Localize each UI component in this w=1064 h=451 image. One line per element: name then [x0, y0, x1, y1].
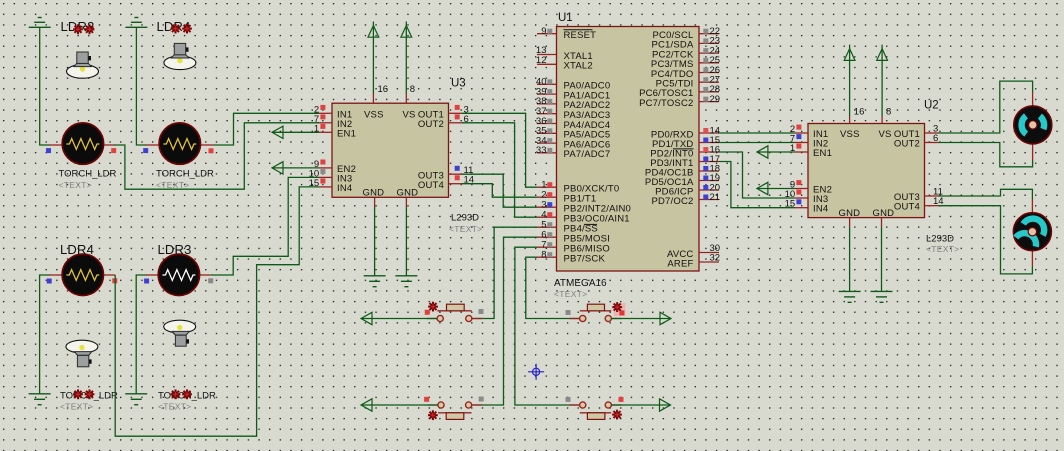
pin U1 PA1 (39) [536, 86, 557, 97]
wire U2 OUT1 to motor M1 top [939, 81, 1033, 133]
pin U1 PA4 (36) [536, 116, 557, 127]
svg-text:<TEXT>: <TEXT> [158, 401, 191, 411]
pin U1 PB2 (3) [537, 200, 557, 211]
svg-text:8: 8 [541, 250, 546, 261]
pin U1 PD3 (17) [699, 154, 720, 165]
pin U2 GND1 stem [849, 218, 851, 227]
marker star SW2 [612, 302, 622, 312]
svg-text:ATMEGA16: ATMEGA16 [554, 278, 607, 289]
svg-text:8: 8 [886, 107, 891, 118]
svg-text:OUT4: OUT4 [418, 180, 444, 191]
pin U3 GND1 stem [374, 197, 376, 207]
svg-text:16: 16 [854, 107, 865, 118]
chip U3 L293D body [332, 103, 449, 198]
svg-text:PA7/ADC7: PA7/ADC7 [564, 149, 611, 160]
svg-text:OUT2: OUT2 [418, 119, 444, 130]
pin U1 PB0 (1) [537, 180, 557, 191]
pin U3 OUT2 (6) [449, 114, 469, 125]
svg-text:GND: GND [839, 208, 861, 219]
button SW3 (bottom-left) [424, 397, 484, 420]
svg-text:<TEXT>: <TEXT> [60, 401, 93, 411]
pin motor M1 bottom stub [1032, 143, 1034, 160]
svg-text:GND: GND [397, 188, 419, 199]
svg-text:U2: U2 [924, 100, 939, 112]
pin U1 PD1 (15) [699, 135, 720, 146]
pin U1 PB7 (8) [537, 250, 557, 261]
wire U3 OUT4 to U1 PB1 [462, 184, 537, 198]
pin U1 PA5 (35) [536, 126, 557, 137]
pin U1 PD0 (14) [699, 125, 720, 136]
pin U3 VS stem (8) [406, 84, 415, 103]
wire U2 GND2 [881, 227, 883, 291]
pin U3 EN2 (9) [314, 159, 332, 170]
pin U1 PB5 (6) [537, 230, 557, 241]
terminal arrow SW2 right [611, 312, 671, 324]
wire U2 OUT4 to motor M2 bottom [939, 206, 1033, 274]
svg-text:<TEXT>: <TEXT> [156, 180, 189, 190]
svg-text:TORCH_LDR: TORCH_LDR [59, 168, 117, 179]
pin U1 PC3 (25) [699, 55, 720, 66]
wire U1 PB7 to button SW2 [526, 257, 580, 318]
chip U2 L293D body [808, 124, 925, 219]
wire U3 GND1 [374, 207, 376, 276]
pin U2 VS stem (8) [882, 107, 891, 124]
marker stars TORCH 4 [171, 389, 192, 399]
pin U1 PB3 (4) [537, 210, 557, 221]
svg-text:<TEXT>: <TEXT> [449, 224, 482, 234]
wire U2 GND1 [849, 227, 851, 291]
svg-text:VSS: VSS [840, 129, 860, 140]
pin U1 PC5 (27) [699, 75, 720, 86]
ground (bottom-left 1) [29, 394, 51, 405]
svg-text:IN4: IN4 [813, 204, 828, 215]
wire ground1 to LDR3 left [40, 27, 50, 145]
wire U1 PD3 to U2 IN4 [719, 162, 795, 208]
wire U1 PD1 to U2 IN2 [719, 142, 795, 144]
svg-text:TORCH_LDR: TORCH_LDR [156, 168, 214, 179]
pin U3 IN4 (15) [309, 178, 332, 189]
ground (top-left 2, inverted) [125, 18, 147, 28]
wire LDR3b left to ground [136, 275, 146, 394]
wire LDR4b left to ground [40, 275, 50, 394]
ground U3 1 [364, 276, 386, 287]
pin U1 RESET (9) [537, 26, 557, 37]
svg-text:U3: U3 [451, 78, 466, 90]
pin U2 OUT1 (3) [925, 124, 939, 135]
wire U3 OUT3 to U1 PB2 [462, 174, 537, 207]
pin motor M2 top stub [1031, 199, 1033, 214]
svg-text:U1: U1 [558, 12, 573, 24]
button SW4 (bottom-right) [566, 397, 624, 420]
svg-text:32: 32 [710, 253, 721, 264]
resistor LDR4 (top second torch_ldr) [143, 123, 213, 164]
svg-text:PD7/OC2: PD7/OC2 [651, 196, 693, 207]
torch icon 3 (inverted) [66, 340, 98, 367]
button SW1 (top-left) [425, 304, 484, 321]
terminal arrow U2 EN1 [757, 146, 795, 158]
resistor LDR4 (bottom-left torch_ldr) [47, 254, 118, 295]
pin U3 OUT3 (11) [449, 165, 474, 176]
pin U1 PB1 (2) [537, 190, 557, 201]
svg-text:15: 15 [309, 178, 320, 189]
chip U1 ATMEGA16 body [557, 27, 700, 272]
svg-text:OUT2: OUT2 [894, 139, 920, 150]
pin motor M2 bottom stub [1031, 250, 1033, 266]
svg-text:<TEXT>: <TEXT> [59, 180, 92, 190]
pin U3 OUT1 (3) [449, 104, 469, 115]
pin U3 IN2 (7) [314, 114, 332, 125]
svg-text:16: 16 [378, 84, 389, 95]
terminal arrow SW1 left [361, 312, 437, 324]
pin U2 OUT4 (14) [925, 196, 944, 207]
pin U1 PA0 (40) [536, 77, 557, 88]
origin marker (blue crosshair) [528, 364, 544, 380]
svg-text:LDR4: LDR4 [60, 242, 94, 257]
terminal arrow SW3 left [361, 399, 438, 411]
pin U1 AREF (32) [699, 253, 720, 264]
motor M1 [1014, 106, 1052, 144]
svg-text:9: 9 [541, 26, 546, 37]
pin U2 OUT2 (6) [925, 133, 939, 144]
motor M2 [1013, 213, 1051, 251]
svg-text:XTAL2: XTAL2 [564, 61, 593, 72]
svg-text:8: 8 [410, 84, 415, 95]
pin U1 AVCC (30) [699, 243, 720, 254]
resistor LDR3 (top-left torch_ldr) [46, 123, 116, 164]
power terminal U2 VSS [844, 45, 855, 116]
ground (bottom-left 2) [125, 394, 147, 405]
svg-text:<TEXT>: <TEXT> [926, 244, 959, 254]
terminal arrow U2 EN2 [757, 182, 795, 194]
marker star SW4 [612, 410, 622, 420]
torch icon 4 (inverted) [164, 320, 196, 346]
wire U1 PB6 to button SW4 [515, 247, 580, 405]
svg-text:33: 33 [536, 145, 547, 156]
pin U2 OUT3 (11) [925, 187, 943, 198]
pin U2 IN4 (15) [785, 199, 808, 210]
svg-text:PC7/TOSC2: PC7/TOSC2 [639, 98, 693, 109]
power terminal U3 VS [401, 22, 412, 94]
pin U1 PD2 (16) [699, 144, 720, 155]
svg-text:GND: GND [363, 188, 385, 199]
power terminal U2 VS [877, 45, 888, 116]
pin U3 IN1 (2) [314, 104, 332, 115]
pin U1 PA6 (34) [536, 135, 557, 146]
pin U1 XTAL1 (13) [536, 45, 557, 56]
marker stars LDR4 [171, 24, 192, 34]
pin U1 PC0 (22) [699, 26, 720, 37]
pin U2 IN3 (10) [785, 189, 808, 200]
terminal arrow SW4 right [611, 399, 670, 411]
pin U1 PA3 (37) [536, 106, 557, 117]
terminal arrow U3 EN2 [272, 162, 319, 174]
svg-text:GND: GND [873, 208, 895, 219]
svg-text:RESET: RESET [564, 30, 597, 41]
svg-text:OUT4: OUT4 [894, 202, 920, 213]
wire U1 PD2 to U2 IN3 [719, 152, 795, 198]
torch icon 1 [67, 52, 99, 78]
wire U1 PB4 to button SW1 [472, 227, 537, 318]
svg-text:VS: VS [403, 109, 416, 120]
wire ground2 to LDR4t left [136, 27, 146, 145]
pin U1 PC7 (29) [699, 94, 720, 105]
wire U2 OUT3 to motor M2 top [939, 189, 1033, 199]
ground U3 2 [395, 276, 417, 287]
pin U1 PA7 (33) [536, 145, 557, 156]
pin U1 PC1 (23) [699, 36, 720, 47]
torch icon 2 [164, 43, 196, 69]
svg-text:L293D: L293D [926, 234, 954, 245]
svg-text:EN1: EN1 [337, 128, 356, 139]
wire LDR3 right to U3 IN2 [114, 123, 319, 189]
resistor LDR3 (bottom second torch_ldr) [144, 254, 213, 295]
svg-text:AREF: AREF [667, 258, 693, 269]
pin U1 PB4 (5) [537, 220, 557, 231]
terminal arrow U3 EN1 [272, 126, 319, 138]
wire U1 PD0 to U2 IN1 [719, 132, 795, 134]
pin U1 PC2 (24) [699, 45, 720, 56]
svg-text:<TEXT>: <TEXT> [554, 289, 587, 299]
pin U1 PD7 (21) [699, 192, 720, 203]
pin U2 EN2 (9) [790, 180, 808, 191]
svg-text:12: 12 [536, 55, 547, 66]
wire LDR4t right to U3 IN1 [214, 113, 320, 145]
marker stars TORCH 3 [73, 389, 94, 399]
svg-text:PB7/SCK: PB7/SCK [564, 254, 606, 265]
pin U3 OUT4 (14) [449, 175, 475, 186]
wire LDR3b right to U3 IN3 (staircase) [211, 177, 319, 275]
ground (top-left 1, inverted) [29, 18, 51, 28]
pin U1 PD4 (18) [699, 163, 720, 174]
svg-text:IN4: IN4 [337, 183, 352, 194]
pin U1 PC4 (26) [699, 65, 720, 76]
pin U2 IN2 (7) [790, 134, 808, 145]
svg-text:21: 21 [710, 192, 721, 203]
pin U1 PD5 (19) [699, 173, 720, 184]
power terminal U3 VSS [368, 22, 379, 94]
svg-text:29: 29 [710, 94, 721, 105]
wire U3 OUT2 to U1 PB3 [462, 123, 537, 217]
button SW2 (top-right) [566, 303, 626, 322]
svg-text:EN1: EN1 [813, 148, 832, 159]
svg-text:L293D: L293D [451, 213, 479, 224]
svg-text:6: 6 [933, 133, 938, 144]
pin U3 IN3 (10) [309, 168, 332, 179]
marker stars LDR3 [73, 24, 94, 34]
pin U3 GND2 stem [405, 197, 407, 207]
pin U2 EN1 (1) [790, 143, 808, 154]
svg-text:VSS: VSS [364, 109, 384, 120]
wire U1 PB5 to button SW3 [472, 237, 537, 405]
marker star SW3 [428, 410, 438, 420]
pin U1 PD6 (20) [699, 182, 720, 193]
wire U3 OUT1 to U1 PB0 [462, 113, 537, 187]
pin U3 VSS stem (16) [373, 84, 388, 103]
wire LDR4b right to U3 IN4 (long route) [115, 187, 319, 436]
pin U2 VSS stem (16) [850, 107, 865, 124]
marker star SW1 [428, 302, 438, 312]
pin motor M1 top stub [1032, 92, 1034, 107]
pin U1 PA2 (38) [536, 96, 557, 107]
pin U1 PC6 (28) [699, 84, 720, 95]
pin U2 IN1 (2) [790, 124, 808, 135]
wire U3 GND2 [405, 207, 407, 276]
ground U2 2 [871, 291, 893, 302]
pin U3 EN1 (1) [314, 123, 332, 134]
pin U1 PB6 (7) [537, 240, 557, 251]
svg-text:VS: VS [879, 129, 892, 140]
pin U2 GND2 stem [881, 218, 883, 227]
pin U1 XTAL2 (12) [536, 55, 557, 66]
svg-text:LDR3: LDR3 [158, 242, 192, 257]
ground U2 1 [839, 291, 861, 302]
wire U2 OUT2 to motor M1 bottom [939, 143, 1033, 167]
